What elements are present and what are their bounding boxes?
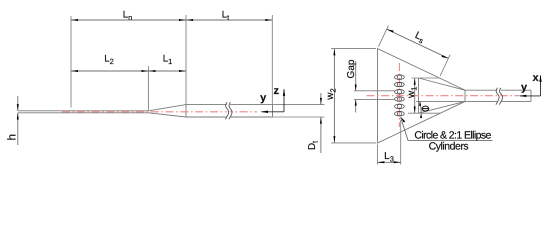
dimension w2 extension lines	[331, 48, 376, 50]
cylinder unit 2	[395, 82, 405, 87]
label theta	[422, 106, 429, 111]
taper section expanding	[149, 105, 187, 117]
svg-text:Gap: Gap	[346, 59, 357, 78]
cylinder unit 4	[395, 97, 405, 102]
break symbol (left figure)	[227, 103, 230, 118]
inner taper	[419, 78, 466, 113]
dimension L3 extension lines	[376, 145, 378, 165]
angle theta arc	[420, 101, 421, 112]
waveguide bottom edge extended (theta reference)	[416, 100, 465, 102]
svg-text:z: z	[273, 85, 279, 97]
extension line at x=69.5	[70, 16, 72, 108]
axes x-y (right figure)	[520, 95, 541, 97]
waveguide rectangle (right figure)	[465, 90, 531, 101]
break symbol (right figure)	[497, 89, 500, 102]
svg-text:y: y	[521, 82, 528, 94]
outer trapezoid	[378, 49, 466, 143]
red vertical centerline through cylinders	[398, 63, 400, 127]
dimension w2	[333, 49, 335, 143]
dimension w1 extension lines	[412, 77, 440, 79]
dimension L3	[377, 161, 400, 163]
leader line to cylinders	[400, 116, 405, 122]
dimension Ls	[387, 29, 448, 58]
cylinder unit 3	[395, 90, 405, 95]
junction line trapezoid/waveguide	[464, 90, 466, 101]
dimension Dt extension lines	[273, 104, 325, 106]
red centerline (left figure)	[62, 111, 257, 113]
dimension Gap	[355, 61, 357, 91]
dimension Ls extension lines	[378, 26, 388, 47]
dimension h	[17, 96, 19, 111]
extension line at x=272.3	[271, 15, 273, 105]
dimension Lt	[186, 19, 272, 21]
junction line taper/rectangle	[185, 105, 187, 117]
svg-text:x: x	[533, 72, 540, 84]
extension line at x=148	[148, 66, 150, 110]
svg-text:Cylinders: Cylinders	[429, 140, 469, 152]
cylinders: 6 units (ellipse + circle)	[395, 75, 405, 116]
svg-text:y: y	[260, 92, 267, 104]
extension line at x=186	[185, 15, 187, 105]
dimension Ln	[71, 19, 186, 21]
wire: thin strip (fiber) top edge	[18, 110, 149, 112]
dimension L2	[71, 70, 149, 72]
dimension Gap extension lines	[354, 90, 395, 92]
wire: thin strip bottom edge	[18, 112, 149, 114]
svg-text:h: h	[6, 134, 18, 140]
cylinder unit 5	[395, 104, 405, 109]
dimension L1	[149, 70, 187, 72]
axes y-z (left figure)	[262, 111, 285, 113]
dimension Dt	[320, 93, 322, 104]
red horizontal centerline (right figure)	[367, 95, 520, 97]
cylinder unit 1	[395, 75, 405, 80]
waveguide rectangle	[186, 105, 273, 117]
cylinder unit 6	[395, 111, 405, 116]
dimension w1	[414, 78, 416, 113]
